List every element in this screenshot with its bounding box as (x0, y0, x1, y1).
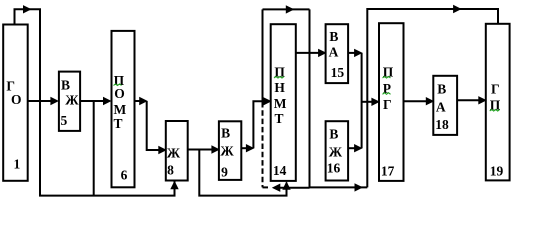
svg-text:Н: Н (274, 80, 285, 95)
svg-text:Ж: Ж (65, 93, 79, 108)
svg-text:9: 9 (221, 164, 228, 179)
svg-text:Т: Т (275, 111, 284, 126)
svg-text:Ж: Ж (167, 145, 181, 160)
svg-text:В: В (329, 127, 338, 142)
svg-text:М: М (274, 96, 287, 111)
svg-text:18: 18 (435, 117, 449, 132)
svg-text:Г: Г (491, 82, 500, 97)
svg-text:Ж: Ж (329, 145, 343, 160)
svg-text:О: О (11, 92, 22, 107)
svg-text:16: 16 (327, 160, 341, 175)
svg-text:Т: Т (114, 116, 123, 131)
svg-text:В: В (329, 29, 338, 44)
svg-text:А: А (329, 45, 339, 60)
svg-text:Ж: Ж (220, 143, 234, 158)
svg-text:В: В (437, 81, 446, 96)
svg-text:6: 6 (121, 167, 128, 182)
svg-text:О: О (114, 86, 125, 101)
svg-text:В: В (221, 126, 230, 141)
svg-text:14: 14 (273, 163, 287, 178)
svg-text:15: 15 (331, 65, 345, 80)
svg-text:1: 1 (14, 156, 21, 171)
svg-text:17: 17 (381, 164, 395, 179)
svg-text:19: 19 (490, 163, 504, 178)
svg-text:8: 8 (167, 163, 174, 178)
svg-text:Г: Г (383, 97, 392, 112)
svg-text:5: 5 (61, 113, 68, 128)
svg-text:В: В (61, 78, 70, 93)
svg-text:М: М (114, 102, 127, 117)
svg-text:А: А (436, 100, 446, 115)
